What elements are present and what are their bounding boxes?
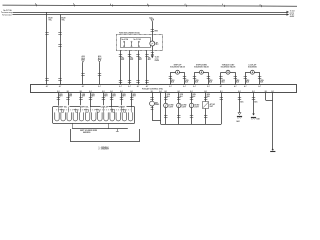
- svg-text:SHIFT SOLENOID WIRE: SHIFT SOLENOID WIRE: [80, 130, 97, 132]
- svg-text:GRN: GRN: [59, 94, 62, 96]
- svg-text:RLY: RLY: [156, 44, 159, 46]
- svg-text:GRN: GRN: [180, 94, 183, 96]
- svg-text:4: 4: [222, 3, 223, 6]
- svg-text:4: 4: [185, 3, 186, 6]
- svg-text:B-1: B-1: [165, 91, 168, 93]
- svg-text:B-1: B-1: [178, 91, 181, 93]
- svg-text:4: 4: [35, 3, 36, 6]
- svg-text:SHIFT SOL: SHIFT SOL: [59, 107, 67, 109]
- svg-text:GRN: GRN: [132, 94, 135, 96]
- svg-text:WHT: WHT: [132, 96, 135, 98]
- svg-text:comp: comp: [155, 58, 159, 60]
- svg-text:SOLENOID VALVE: SOLENOID VALVE: [221, 66, 237, 69]
- svg-text:YEL: YEL: [139, 57, 142, 59]
- svg-text:4: 4: [147, 3, 148, 6]
- svg-text:SHIFT SOL: SHIFT SOL: [80, 107, 88, 109]
- svg-text:YEL: YEL: [121, 57, 124, 59]
- svg-text:GRN: GRN: [185, 80, 188, 82]
- svg-text:GRN: GRN: [122, 94, 125, 96]
- svg-text:GRN: GRN: [167, 94, 170, 96]
- svg-text:WHT: WHT: [69, 96, 72, 98]
- svg-text:GRN: GRN: [246, 80, 249, 82]
- svg-text:YEL: YEL: [130, 57, 133, 59]
- svg-text:LIGHT: LIGHT: [194, 106, 199, 108]
- svg-text:pump: pump: [290, 12, 294, 14]
- svg-text:LIGHT: LIGHT: [182, 106, 187, 108]
- svg-text:B-1: B-1: [151, 91, 154, 93]
- svg-text:4: 4: [260, 3, 261, 6]
- svg-text:LOCK-UP: LOCK-UP: [101, 107, 109, 109]
- svg-text:GRN: GRN: [91, 94, 94, 96]
- svg-text:GRN: GRN: [82, 94, 85, 96]
- svg-text:WHT: WHT: [91, 96, 94, 98]
- svg-text:4: 4: [73, 3, 74, 6]
- svg-text:WHT: WHT: [59, 96, 62, 98]
- svg-text:2 : GRN/WHT: 2 : GRN/WHT: [99, 149, 110, 151]
- svg-text:LIGHT: LIGHT: [169, 106, 174, 108]
- svg-text:GRN: GRN: [192, 94, 195, 96]
- svg-text:WHT: WHT: [82, 96, 85, 98]
- svg-text:WHT: WHT: [104, 96, 107, 98]
- svg-text:SOLENOID VALVE: SOLENOID VALVE: [194, 66, 210, 69]
- svg-text:GRN: GRN: [207, 94, 210, 96]
- svg-text:B-1: B-1: [67, 91, 70, 93]
- svg-text:GRN: GRN: [104, 94, 107, 96]
- svg-text:GRN: GRN: [209, 80, 212, 82]
- svg-text:GRN: GRN: [112, 94, 115, 96]
- svg-text:GRN: GRN: [195, 80, 198, 82]
- svg-text:SOLENOID: SOLENOID: [248, 67, 258, 69]
- svg-text:GRN: GRN: [236, 80, 239, 82]
- svg-text:GRN: GRN: [222, 80, 225, 82]
- svg-text:GRN: GRN: [69, 94, 72, 96]
- svg-text:FUSE BOX (UNDER-HOOD): FUSE BOX (UNDER-HOOD): [119, 32, 140, 34]
- svg-text:GRN: GRN: [260, 80, 263, 82]
- svg-text:SOLENOID VALVE: SOLENOID VALVE: [170, 66, 186, 69]
- svg-text:YEL: YEL: [148, 57, 151, 59]
- svg-text:WHT: WHT: [112, 96, 115, 98]
- svg-text:SENS: SENS: [155, 104, 159, 106]
- svg-text:4: 4: [110, 3, 111, 6]
- svg-text:WHT: WHT: [122, 96, 125, 98]
- svg-text:UNIT: UNIT: [210, 106, 214, 108]
- svg-text:GRN: GRN: [171, 80, 174, 82]
